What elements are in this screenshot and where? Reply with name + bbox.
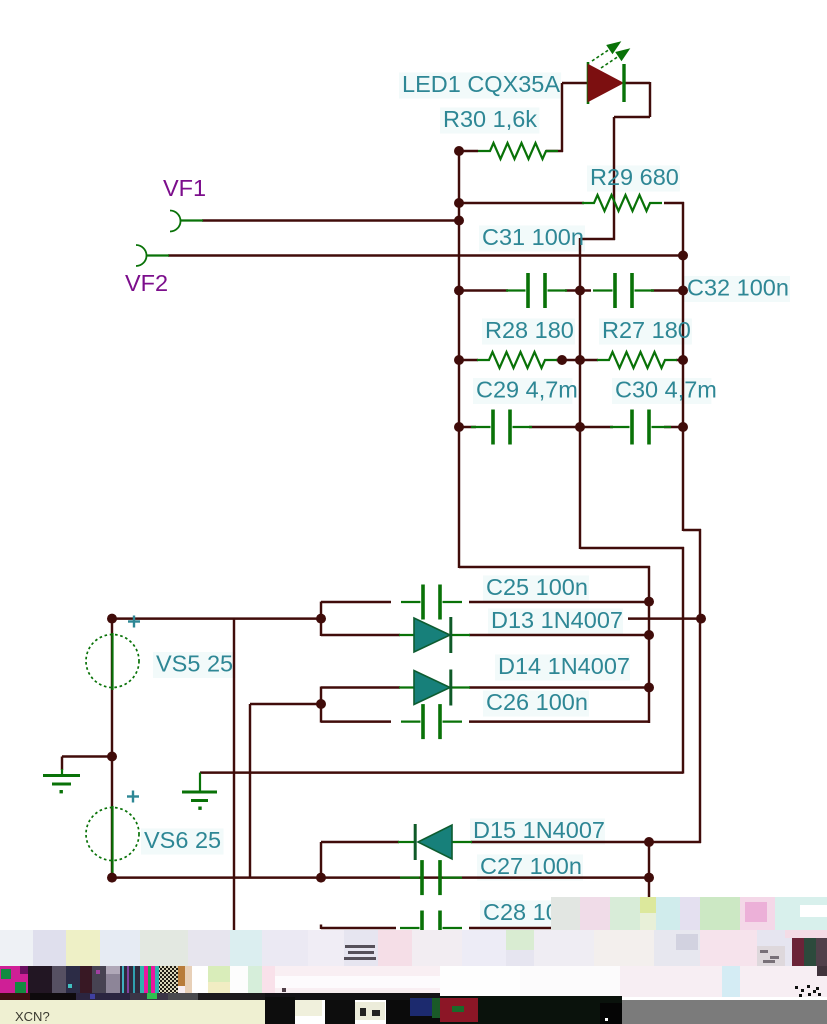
wire D15 right [471,841,649,843]
svg-text:C27 100n: C27 100n [480,853,582,879]
wire pair right bracket [648,566,650,723]
wire pair2 left bracket [320,687,322,723]
wire far right column [699,529,701,843]
node [644,873,654,883]
wire C26 right [469,720,649,722]
wire jog to C31 column [580,238,615,240]
svg-text:R29 680: R29 680 [590,164,679,190]
resistor R29 [582,195,662,211]
node [454,422,464,432]
wire C28 left [321,927,396,929]
wire cathode down [613,117,615,240]
wire D15 left [321,841,399,843]
svg-text:C32 100n: C32 100n [687,275,789,301]
svg-text:R28 180: R28 180 [485,317,574,343]
wire C32 right [651,289,683,291]
wire jog to pair bracket [459,566,650,568]
wire C30 right [664,426,683,428]
wire D14 feed [250,703,321,705]
wire D15 to far right [649,841,701,843]
svg-text:VF2: VF2 [125,270,168,296]
connector VF1 [170,211,203,232]
wire mid column [579,238,581,549]
node [107,752,117,762]
voltage source VS5 [86,616,140,691]
svg-text:VF1: VF1 [163,175,206,201]
wire R28-R27 link [556,359,598,361]
node [454,286,464,296]
node [644,837,654,847]
wire C29-C30 link [529,426,613,428]
wire jog mid [580,547,684,549]
svg-text:D14 1N4007: D14 1N4007 [498,653,630,679]
wire R29 left [459,202,584,204]
wire cathode drop [649,82,651,117]
wire C31-C32 link [565,289,591,291]
wire D14 left [321,686,400,688]
resistor R28 [477,352,557,368]
connector VF2 [136,245,169,266]
wire C29 left [459,426,476,428]
wire R27 right [676,359,683,361]
svg-text:C29 4,7m: C29 4,7m [476,377,578,403]
capacitor C25 [401,585,462,620]
resistor R30 [478,143,558,159]
node [678,286,688,296]
node [644,683,654,693]
node [316,873,326,883]
node [575,355,585,365]
wire cathode jog [614,116,650,118]
wire C28 stub [320,925,322,930]
node [696,614,706,624]
svg-text:C31 100n: C31 100n [482,224,584,250]
diode D15 [398,824,472,860]
wire C31 left [459,289,508,291]
ground (VS5) [43,769,80,793]
node [575,286,585,296]
svg-text:C26 100n: C26 100n [486,689,588,715]
svg-text:D15 1N4007: D15 1N4007 [473,817,605,843]
wire LED1 anode drop [561,83,563,152]
svg-text:R27 180: R27 180 [602,317,691,343]
node [678,355,688,365]
wire C26 left [321,720,391,722]
wire C28 right [469,927,552,929]
capacitor C30 [610,410,671,445]
node [316,614,326,624]
svg-text:XCN?: XCN? [15,1009,50,1024]
wire VS5 plus rail right [628,617,701,619]
wire bottom rail [112,876,649,878]
capacitor C29 [471,410,532,445]
node [644,630,654,640]
capacitor C28 [400,911,462,946]
node [316,699,326,709]
node [644,597,654,607]
wire VF1 net [202,219,459,221]
wire D14 feed drop [249,704,251,878]
wire D13 right [469,634,649,636]
svg-text:LED1 CQX35A: LED1 CQX35A [402,71,560,97]
svg-text:R30 1,6k: R30 1,6k [443,106,537,132]
wire right column upper [682,202,684,531]
LED light arrows [592,43,629,69]
wire D13 left [321,634,400,636]
wire C25 right [469,601,649,603]
wire left column [458,150,460,568]
wire R30 right [546,150,563,152]
node [107,614,117,624]
wire ground rail [200,771,683,773]
wire R30 left [459,150,478,152]
corrupted bitmap noise region [0,897,827,1024]
svg-text:D13 1N4007: D13 1N4007 [491,607,623,633]
capacitor C31 [506,273,567,308]
node [678,251,688,261]
node [678,422,688,432]
wire mid drop column [233,619,235,931]
wire jog far right [683,529,701,531]
wire LED1 cathode [624,82,650,84]
node [454,198,464,208]
wire ground1 link [62,755,112,757]
wire VS5 plus rail [112,617,321,619]
wire C25 left [321,601,391,603]
node [454,146,464,156]
wire ground1 drop [61,757,63,771]
svg-text:C30 4,7m: C30 4,7m [615,377,717,403]
wire pair1 left bracket [320,602,322,636]
svg-text:VS5 25: VS5 25 [156,651,233,677]
svg-text:VS6 25: VS6 25 [144,827,221,853]
wire C27 right drop [648,841,650,898]
wire LED1 anode [562,82,588,84]
LED LED1 [588,62,624,104]
svg-text:C28 10: C28 10 [483,899,559,925]
wire right column lower [682,547,684,774]
wire R28 left [459,359,478,361]
capacitor C32 [593,273,654,308]
wire VF2 net [168,254,684,256]
wire D15 left bracket [320,842,322,878]
wire source column [111,618,113,879]
diode D13 [399,617,470,653]
voltage source VS6 [86,791,139,876]
svg-text:C25 100n: C25 100n [486,574,588,600]
label background halos [399,73,561,99]
node [107,873,117,883]
node [557,355,567,365]
ground (mid) [182,773,217,810]
wire R29 right [664,202,684,204]
capacitor C27 [400,860,462,895]
resistor R27 [597,352,677,368]
wire D14 right [469,686,649,688]
node [454,355,464,365]
node [575,422,585,432]
node [454,216,464,226]
capacitor C26 [401,704,462,739]
diode D14 [399,670,470,706]
